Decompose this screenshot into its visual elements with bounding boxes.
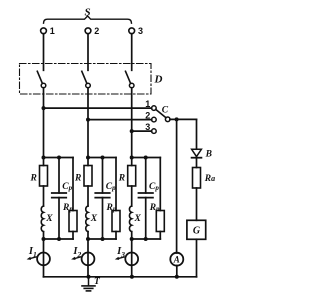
wire branch1 R to X [43,186,45,206]
wire branch1 Rp top lead [72,158,74,211]
node I3-bus [130,275,134,279]
node ammeter-bus [175,275,179,279]
wire branch3 R top lead [131,158,133,166]
ammeter A [170,253,183,266]
wire branch1 X to bottom [43,232,45,239]
node right junction [175,117,179,121]
svg-text:Cp: Cp [106,182,116,192]
svg-text:A: A [173,255,180,265]
inductor X branch2 [86,206,88,232]
svg-text:X: X [134,214,142,224]
svg-text:X: X [90,214,98,224]
terminal 3 [129,28,135,34]
node tap2 [86,118,90,122]
resistor Rp branch2 [112,211,120,232]
wire branch3 Rp bottom lead [159,232,161,240]
wire branch1 bottom rail [44,238,74,240]
switch Q3 contact [129,83,134,88]
wire pivot to right column [170,118,197,120]
svg-text:2: 2 [94,26,99,36]
wire junction to ammeter [176,119,178,253]
arrow I3 [118,257,124,259]
bracket S [44,16,132,23]
wire diode to Ra [196,158,198,168]
selector contact 3 [152,129,157,134]
node ground-bus [87,275,91,279]
wire branch2 Rp top lead [115,158,117,211]
svg-text:Rp: Rp [106,203,117,213]
wire branch2 to meter I2 [87,239,89,277]
node branch1 bottom left [42,237,46,241]
selector contact 1 [152,106,157,111]
switch Q2 blade [82,71,87,83]
wire branch1 R top lead [43,158,45,166]
node tap3 [130,129,134,133]
node branch3 bottom left [130,237,134,241]
box G [187,220,206,239]
switch Q3 blade [126,71,131,83]
node tap1 [42,106,46,110]
node branch3 top mid [144,156,148,160]
ground T [88,277,90,286]
inductor X branch3 [129,206,131,232]
node branch2 bottom left [86,237,90,241]
wire branch1 to meter I1 [43,239,45,277]
wire tap2 [88,119,152,121]
wire branch2 Cp top lead [102,158,104,194]
diode B [192,149,202,156]
wire branch2 Rp bottom lead [115,232,117,240]
svg-text:2: 2 [145,110,150,120]
svg-text:Rp: Rp [149,203,160,213]
svg-text:Cp: Cp [62,182,72,192]
wire bottom bus [44,276,197,278]
svg-text:Cp: Cp [149,182,159,192]
wire G to bus [196,239,198,276]
arrow I2 [75,257,81,259]
wire branch1 Cp top lead [58,158,60,194]
node branch3 bottom mid [144,237,148,241]
terminal 1 [41,28,47,34]
wire branch3 R to X [131,186,133,206]
resistor Rp branch3 [156,211,164,232]
node branch2 top [86,156,90,160]
svg-text:3: 3 [145,122,150,132]
node branch1 top [42,156,46,160]
svg-text:Ra: Ra [204,174,215,184]
wire tap1 [44,107,152,109]
selector contact 2 [152,117,157,122]
svg-text:T: T [94,277,101,287]
meter I2 [82,253,95,266]
node branch2 bottom mid [101,237,105,241]
resistor R branch3 [128,166,136,187]
wire phase1 terminal to switch [43,34,45,71]
wire branch3 to meter I3 [131,239,133,277]
wire branch3 bottom rail [132,238,161,240]
svg-text:C: C [162,106,169,116]
wire phase2 terminal to switch [87,34,89,71]
svg-text:Rp: Rp [62,203,73,213]
svg-text:B: B [205,150,212,160]
svg-text:1: 1 [145,99,150,109]
meter I1 [37,253,50,266]
capacitor Cp branch2 [95,192,109,194]
svg-text:D: D [154,74,163,86]
wire branch3 top rail [132,157,161,159]
svg-text:3: 3 [138,26,143,36]
svg-text:G: G [193,225,201,236]
wire branch1 Cp bottom lead [58,198,60,239]
node branch1 top mid [57,156,61,160]
selector pivot [165,117,170,122]
wire branch1 Rp bottom lead [72,232,74,240]
switch Q1 blade [37,71,42,83]
svg-text:R: R [30,174,37,184]
wire phase1 down [43,88,45,158]
wire branch2 Cp bottom lead [102,198,104,239]
branches placeholder [27,156,165,277]
wire branch1 top rail [44,157,74,159]
wire branch3 Cp bottom lead [145,198,147,239]
wire right column down to diode [196,119,198,149]
wire phase3 terminal to switch [131,34,133,71]
resistor R branch2 [84,166,92,187]
wire tap3 [132,130,152,132]
wire branch3 Rp top lead [159,158,161,211]
wire branch3 X to bottom [131,232,133,239]
svg-text:X: X [45,214,53,224]
wire branch2 R to X [87,186,89,206]
svg-text:R: R [118,174,125,184]
wire branch2 X to bottom [87,232,89,239]
svg-text:R: R [74,174,81,184]
wire branch2 bottom rail [88,238,116,240]
wire ammeter to bus [176,266,178,277]
resistor Ra [193,168,201,189]
meter I3 [125,253,138,266]
wire branch2 R top lead [87,158,89,166]
wire branch3 Cp top lead [145,158,147,194]
wire Ra to G [196,188,198,220]
svg-text:S: S [85,7,91,19]
node branch2 top mid [101,156,105,160]
inductor X branch1 [41,206,43,232]
wire phase2 down [87,88,89,158]
wire branch2 top rail [88,157,116,159]
node branch1 bottom mid [57,237,61,241]
selector blade C [156,109,166,117]
switch Q1 contact [41,83,46,88]
box D dashed [20,64,152,95]
resistor R branch1 [40,166,48,187]
capacitor Cp branch3 [139,192,153,194]
terminal 2 [85,28,91,34]
capacitor Cp branch1 [52,192,66,194]
node branch3 top [130,156,134,160]
switch Q2 contact [86,83,91,88]
wire phase3 down [131,88,133,158]
svg-text:1: 1 [50,26,55,36]
arrow I1 [30,257,36,259]
resistor Rp branch1 [69,211,77,232]
